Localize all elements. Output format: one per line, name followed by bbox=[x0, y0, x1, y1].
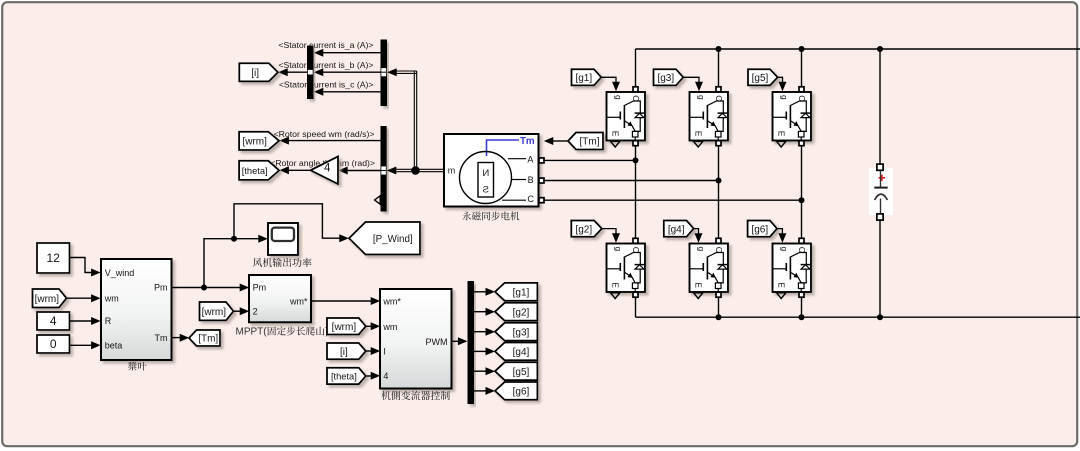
svg-text:[Tm]: [Tm] bbox=[580, 137, 600, 148]
wire: capacitor to bottom bus bbox=[879, 220, 881, 317]
wire: Pm branch up to scope bbox=[204, 239, 259, 288]
wire: bus selector to mux, stator current is_a bbox=[323, 52, 381, 54]
svg-text:E: E bbox=[694, 282, 704, 288]
constant 4 bbox=[37, 312, 70, 330]
from tag [g2] bbox=[571, 221, 602, 237]
wire: [g6] to gate bbox=[777, 229, 782, 237]
IGBT block Q5 bbox=[773, 92, 812, 141]
bus selector 1 (stator currents) bbox=[381, 40, 388, 107]
svg-text:A: A bbox=[527, 154, 533, 164]
IGBT Q4 unconnected m port bbox=[694, 293, 703, 299]
svg-text:<Stator current is_a (A)>: <Stator current is_a (A)> bbox=[278, 40, 373, 50]
wire: 4 to R bbox=[70, 320, 93, 322]
PMSM blue input wire bbox=[487, 140, 520, 156]
svg-text:E: E bbox=[694, 131, 704, 137]
from tag [Tm] (feeds PMSM) bbox=[568, 133, 603, 150]
bus wire: PMSM m output (double line) bbox=[396, 70, 417, 72]
svg-text:[g6]: [g6] bbox=[751, 224, 768, 235]
from tag [i] (feeds controller I) bbox=[327, 343, 366, 359]
mux (stator currents) bbox=[307, 46, 314, 100]
wire: [Tm] to PMSM Tm input bbox=[552, 140, 568, 142]
svg-text:4: 4 bbox=[324, 162, 331, 174]
wire: Q5 emitter down phase leg bbox=[801, 146, 803, 239]
constant 12 bbox=[37, 243, 70, 273]
converter control block 机侧变流器控制 bbox=[380, 289, 452, 389]
svg-text:g: g bbox=[780, 247, 790, 252]
wire: 12 to V_wind bbox=[70, 258, 93, 273]
wire: blade Pm to MPPT Pm bbox=[172, 287, 241, 289]
PMSM block 永磁同步电机 bbox=[444, 134, 539, 207]
svg-text:4: 4 bbox=[50, 314, 57, 328]
svg-text:C: C bbox=[527, 194, 534, 204]
DC link capacitor C1 bbox=[869, 168, 893, 215]
wire: MPPT wm* to controller bbox=[311, 300, 372, 302]
gain 4 (flipped triangle) bbox=[311, 157, 339, 185]
scope block 风机输出功率 bbox=[268, 223, 298, 255]
IGBT Q4 E port bbox=[716, 292, 721, 297]
goto tag [i] bbox=[239, 63, 278, 81]
MPPT subsystem block bbox=[249, 275, 311, 322]
svg-text:[g5]: [g5] bbox=[752, 73, 769, 84]
svg-text:E: E bbox=[777, 131, 787, 137]
wire: 0 to beta bbox=[70, 344, 93, 346]
IGBT Q1 C port bbox=[633, 87, 638, 92]
wire: phase B bbox=[544, 180, 719, 182]
IGBT Q4 C port bbox=[716, 238, 721, 243]
wire: demux out 5 bbox=[474, 370, 487, 372]
svg-text:g: g bbox=[697, 95, 707, 100]
bottom bus junction dots bbox=[716, 314, 722, 320]
svg-text:[theta]: [theta] bbox=[242, 166, 268, 176]
wire: top bus to capacitor bbox=[879, 49, 881, 165]
svg-text:<Stator current is_c (A)>: <Stator current is_c (A)> bbox=[279, 80, 374, 90]
wire: Q1 emitter down phase leg bbox=[635, 146, 637, 239]
svg-text:[g3]: [g3] bbox=[513, 327, 530, 338]
from tag [g4] bbox=[664, 221, 694, 237]
svg-text:[theta]: [theta] bbox=[331, 372, 357, 382]
svg-text:[g4]: [g4] bbox=[668, 224, 685, 235]
wire: blade Tm to goto [Tm] bbox=[172, 337, 182, 339]
wire: [wrm] to wm bbox=[67, 297, 93, 299]
DC bus top wire bbox=[636, 48, 1080, 50]
svg-text:g: g bbox=[614, 95, 624, 100]
wire: Q4 emitter to bottom bus bbox=[718, 297, 720, 317]
IGBT block Q4 bbox=[690, 244, 729, 293]
blade subsystem block 桨叶 bbox=[101, 259, 172, 360]
svg-text:m: m bbox=[448, 166, 456, 176]
svg-text:MPPT(: MPPT( bbox=[236, 327, 268, 338]
svg-text:wm*: wm* bbox=[289, 296, 308, 306]
wire: gain output to goto [theta] bbox=[288, 169, 310, 171]
wire: demux out 4 bbox=[474, 350, 487, 352]
wire: [wrm] to MPPT 2 bbox=[234, 310, 241, 312]
svg-text:E: E bbox=[611, 131, 621, 137]
IGBT Q6 C port bbox=[799, 238, 804, 243]
wire: demux out 6 bbox=[474, 390, 487, 392]
svg-text:Pm: Pm bbox=[253, 283, 267, 293]
wire: [g3] to gate bbox=[683, 77, 699, 85]
svg-text:beta: beta bbox=[105, 341, 123, 351]
wire: phase A bbox=[544, 159, 636, 161]
wire: top bus to Q3 collector bbox=[718, 49, 720, 87]
PMSM block label 永磁同步电机 bbox=[462, 212, 519, 221]
svg-text:[P_Wind]: [P_Wind] bbox=[373, 234, 413, 245]
wire: demux out 1 bbox=[474, 291, 487, 293]
svg-text:[wrm]: [wrm] bbox=[35, 294, 60, 305]
IGBT block Q2 bbox=[607, 244, 646, 293]
svg-text:[Tm]: [Tm] bbox=[198, 334, 218, 345]
IGBT Q3 unconnected m port bbox=[694, 141, 703, 147]
goto tag [P_Wind] bbox=[349, 222, 420, 255]
wire: PWM output to demux bbox=[452, 340, 460, 342]
goto tag [g4] bbox=[495, 343, 537, 361]
IGBT Q2 unconnected m port bbox=[611, 293, 620, 299]
IGBT Q2 E port bbox=[633, 292, 638, 297]
scope label 风机输出功率 bbox=[253, 258, 312, 267]
wire: rotor speed to goto [wrm] bbox=[288, 140, 381, 142]
goto tag [g3] bbox=[495, 323, 537, 341]
svg-text:12: 12 bbox=[47, 251, 61, 265]
svg-text:E: E bbox=[611, 282, 621, 288]
IGBT Q3 C port bbox=[716, 87, 721, 92]
blade block label 桨叶 bbox=[128, 362, 147, 371]
PMSM winding stubs bbox=[508, 158, 526, 160]
control block label 机侧变流器控制 bbox=[381, 391, 450, 400]
unconnected output arrow of bus selector 2 bbox=[375, 196, 381, 204]
goto tag [g2] bbox=[495, 303, 537, 321]
wire: [g4] to gate bbox=[694, 229, 699, 237]
svg-text:[g5]: [g5] bbox=[513, 367, 530, 378]
svg-text:[g6]: [g6] bbox=[513, 387, 530, 398]
wire: [g1] to gate bbox=[601, 77, 616, 85]
svg-text:V_wind: V_wind bbox=[105, 268, 135, 278]
IGBT Q3 E port bbox=[716, 141, 721, 146]
IGBT Q1 unconnected m port bbox=[611, 141, 620, 147]
wire: branch to P_Wind goto bbox=[234, 204, 340, 239]
IGBT block Q6 bbox=[773, 244, 812, 293]
wire: rotor angle to gain bbox=[347, 170, 381, 172]
wire: phase C bbox=[544, 199, 802, 201]
svg-text:[i]: [i] bbox=[340, 347, 348, 358]
from tag [g1] bbox=[572, 69, 602, 85]
wire: [g2] to gate bbox=[602, 229, 616, 237]
from tag [wrm] (feeds controller wm) bbox=[327, 318, 366, 335]
from tag [wrm] (feeds blade wm) bbox=[33, 289, 67, 308]
DC bus bottom wire bbox=[636, 316, 1080, 318]
PMSM motor circle bbox=[460, 152, 512, 204]
goto tag [g1] bbox=[495, 283, 537, 301]
svg-text:Tm: Tm bbox=[155, 333, 168, 343]
IGBT Q5 unconnected m port bbox=[777, 141, 786, 147]
svg-text:4: 4 bbox=[383, 371, 388, 381]
top bus junction dots bbox=[716, 46, 722, 52]
wire: [g5] to gate bbox=[778, 77, 783, 85]
svg-text:B: B bbox=[528, 175, 534, 185]
svg-text:R: R bbox=[105, 316, 112, 326]
IGBT Q6 E port bbox=[799, 292, 804, 297]
svg-text:I: I bbox=[383, 346, 386, 356]
svg-text:S: S bbox=[483, 185, 489, 196]
svg-text:wm: wm bbox=[104, 293, 119, 303]
wire: top bus to Q1 collector bbox=[635, 49, 637, 87]
goto tag [theta] bbox=[239, 161, 279, 180]
svg-text:[g2]: [g2] bbox=[513, 307, 530, 318]
PMSM magnet rect with mirrored N S bbox=[478, 163, 494, 198]
svg-text:E: E bbox=[777, 282, 787, 288]
svg-text:[g1]: [g1] bbox=[513, 288, 530, 299]
IGBT Q5 E port bbox=[799, 141, 804, 146]
svg-text:Tm: Tm bbox=[520, 136, 535, 147]
phase junction dots bbox=[633, 157, 639, 163]
svg-text:g: g bbox=[614, 247, 624, 252]
wire: demux out 3 bbox=[474, 331, 487, 333]
svg-text:[g1]: [g1] bbox=[575, 73, 592, 84]
wire: Q3 emitter down phase leg bbox=[718, 146, 720, 239]
svg-text:PWM: PWM bbox=[426, 337, 448, 347]
from tag [g3] bbox=[654, 69, 684, 85]
IGBT Q2 C port bbox=[633, 238, 638, 243]
wire: demux out 2 bbox=[474, 311, 487, 313]
constant 0 bbox=[37, 335, 70, 353]
IGBT block Q1 bbox=[607, 92, 646, 141]
goto tag [g5] bbox=[495, 362, 537, 380]
PMSM port squares A B C bbox=[539, 158, 544, 163]
wire: top bus to Q5 collector bbox=[801, 49, 803, 87]
svg-text:g: g bbox=[780, 95, 790, 100]
svg-text:g: g bbox=[697, 247, 707, 252]
svg-text:2: 2 bbox=[253, 307, 258, 317]
bus selector 2 (rotor speed/angle) bbox=[381, 126, 387, 212]
wire: Q6 emitter to bottom bus bbox=[801, 297, 803, 317]
svg-text:Pm: Pm bbox=[154, 283, 168, 293]
IGBT Q5 C port bbox=[799, 87, 804, 92]
wire: mux output to goto [i] bbox=[287, 71, 307, 73]
svg-text:[i]: [i] bbox=[251, 68, 259, 79]
IGBT Q1 E port bbox=[633, 141, 638, 146]
from tag [theta] (feeds controller 4) bbox=[327, 368, 366, 384]
from tag [wrm] (feeds MPPT input 2) bbox=[200, 302, 234, 320]
IGBT Q6 unconnected m port bbox=[777, 293, 786, 299]
bus junction dot bbox=[411, 166, 420, 175]
wire: bus selector to mux, stator current is_c bbox=[323, 91, 381, 93]
svg-text:N: N bbox=[482, 168, 489, 179]
svg-text:[g3]: [g3] bbox=[657, 73, 674, 84]
svg-text:[wrm]: [wrm] bbox=[242, 137, 267, 148]
goto tag [g6] bbox=[495, 382, 537, 400]
svg-text:0: 0 bbox=[50, 337, 57, 351]
svg-text:[wrm]: [wrm] bbox=[202, 307, 227, 318]
svg-text:[g2]: [g2] bbox=[575, 224, 592, 235]
wire: bus selector to mux, stator current is_b bbox=[323, 71, 381, 73]
wire: Q2 emitter to bottom bus bbox=[635, 297, 637, 317]
svg-text:<Stator current is_b (A)>: <Stator current is_b (A)> bbox=[278, 60, 373, 70]
goto tag [wrm] bbox=[239, 132, 279, 150]
svg-text:[g4]: [g4] bbox=[513, 347, 530, 358]
svg-text:wm*: wm* bbox=[382, 296, 401, 306]
from tag [g6] bbox=[748, 221, 777, 237]
demux (PWM to g1..g6) bbox=[468, 281, 475, 404]
IGBT block Q3 bbox=[690, 92, 729, 141]
svg-text:[wrm]: [wrm] bbox=[332, 322, 357, 333]
svg-text:wm: wm bbox=[382, 322, 397, 332]
svg-text:<Rotor speed wm (rad/s)>: <Rotor speed wm (rad/s)> bbox=[274, 129, 375, 139]
goto tag [Tm] bbox=[189, 330, 220, 346]
from tag [g5] bbox=[748, 69, 778, 85]
